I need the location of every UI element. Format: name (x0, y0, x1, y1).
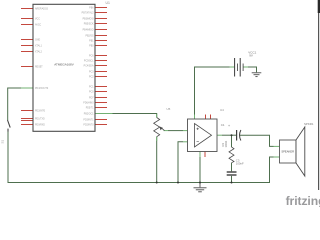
svg-text:PD0/RXD: PD0/RXD (35, 124, 45, 126)
svg-text:AREF/ADC6: AREF/ADC6 (35, 7, 49, 10)
svg-text:100nF: 100nF (236, 162, 244, 166)
svg-text:PB4/MISO: PB4/MISO (83, 29, 94, 31)
svg-text:S1: S1 (1, 139, 5, 143)
svg-text:PC5/SCL: PC5/SCL (84, 60, 94, 62)
svg-text:PB5/SCK: PB5/SCK (84, 23, 94, 25)
svg-text:U1: U1 (106, 1, 110, 5)
svg-text:PD7: PD7 (89, 97, 94, 99)
svg-text:PB7/XTAL2: PB7/XTAL2 (82, 11, 95, 14)
svg-text:PC0: PC0 (89, 91, 94, 93)
svg-text:RESET: RESET (35, 66, 43, 68)
svg-text:fritzing: fritzing (286, 194, 320, 207)
svg-text:VCC: VCC (35, 18, 40, 20)
svg-text:PB3/MOSI: PB3/MOSI (83, 18, 94, 20)
svg-text:PD3/INT1: PD3/INT1 (83, 119, 94, 121)
svg-text:PD5/T1: PD5/T1 (86, 107, 95, 109)
svg-text:XTAL1: XTAL1 (35, 44, 43, 47)
svg-text:PC3: PC3 (89, 71, 94, 73)
svg-text:SPEAKER: SPEAKER (281, 150, 294, 154)
svg-text:9V: 9V (249, 54, 253, 58)
svg-text:PB2/OC1: PB2/OC1 (84, 113, 94, 115)
svg-text:PD2/INT0: PD2/INT0 (35, 110, 46, 112)
svg-text:U4: U4 (220, 108, 224, 112)
svg-text:PD6/AIN0: PD6/AIN0 (83, 101, 94, 104)
svg-text:PB1: PB1 (89, 40, 94, 42)
svg-text:PC1: PC1 (89, 86, 94, 88)
svg-text:ATMEGA168V: ATMEGA168V (54, 63, 73, 67)
svg-text:PC6: PC6 (89, 55, 94, 57)
svg-text:PD2/INT0: PD2/INT0 (83, 124, 94, 126)
svg-text:PC2: PC2 (89, 76, 94, 78)
svg-text:U5: U5 (167, 107, 171, 111)
svg-text:PB0: PB0 (89, 45, 94, 47)
svg-text:AVCC: AVCC (35, 23, 42, 26)
svg-text:XTAL2: XTAL2 (35, 50, 43, 53)
svg-text:PD1/TXD: PD1/TXD (35, 118, 45, 120)
svg-text:PB6: PB6 (89, 7, 94, 9)
svg-text:PD4/XCK/T0: PD4/XCK/T0 (35, 88, 49, 90)
svg-text:GND: GND (35, 39, 40, 41)
svg-text:PC4/SDA: PC4/SDA (84, 64, 94, 67)
svg-text:C1: C1 (221, 123, 225, 127)
svg-text:100Ω: 100Ω (224, 141, 228, 148)
svg-text:PB2/SS: PB2/SS (85, 35, 94, 37)
svg-text:SPKR1: SPKR1 (304, 122, 314, 126)
